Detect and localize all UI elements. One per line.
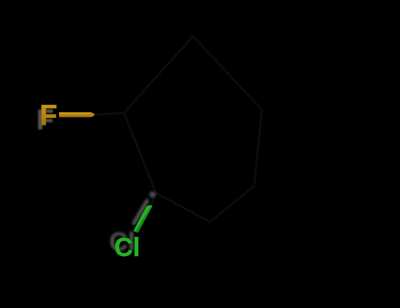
faded tail of F bond shadow bbox=[100, 118, 108, 121]
carbon half of C-Cl bond bbox=[151, 193, 156, 205]
ring bond C3-C4 (right edge) bbox=[254, 110, 262, 186]
highlight on fluorine bond bbox=[60, 112, 90, 114]
ring bond C6-C1 (left edge) bbox=[124, 113, 156, 193]
ring bond C2-C3 (top-right edge) bbox=[193, 36, 262, 110]
ring bond C5-C6 (bottom edge) bbox=[156, 193, 210, 222]
carbon half of C-F bond bbox=[95, 113, 124, 115]
ring bond C4-C5 (bottom-right edge) bbox=[210, 186, 254, 222]
svg-text:F: F bbox=[40, 100, 58, 132]
ring bond C1-C2 (top-left edge) bbox=[124, 36, 193, 113]
chlorine bond (green half, tapers at top) bbox=[133, 205, 152, 233]
svg-text:Cl: Cl bbox=[114, 234, 140, 262]
fluorine bond (gold half, rounded taper at right) bbox=[59, 112, 95, 117]
shadow blob past bond tip bbox=[149, 191, 155, 197]
shadow of F-C bond bbox=[56, 117, 101, 120]
shadow of Cl-C bond (lower part) bbox=[134, 201, 147, 223]
benzene ring (carbon skeleton) bbox=[95, 36, 262, 222]
